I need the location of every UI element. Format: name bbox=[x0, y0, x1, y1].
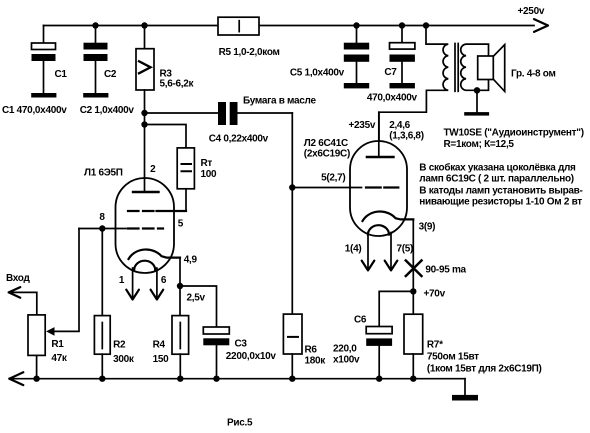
svg-text:R6: R6 bbox=[305, 345, 318, 356]
node +250v arrow bbox=[534, 19, 548, 32]
resistor R5 bbox=[218, 17, 259, 35]
svg-text:TW10SE ("Аудиоинструмент"): TW10SE ("Аудиоинструмент") bbox=[444, 128, 584, 139]
ground (speaker) bbox=[476, 90, 478, 112]
resistor R2 bbox=[101, 229, 103, 316]
svg-text:750ом 15вт: 750ом 15вт bbox=[427, 352, 479, 363]
node input arrow bbox=[9, 287, 21, 298]
svg-text:C7: C7 bbox=[384, 67, 397, 78]
svg-text:Гр. 4-8 ом: Гр. 4-8 ом bbox=[511, 69, 556, 80]
svg-text:В скобках указана цоколёвка дл: В скобках указана цоколёвка для bbox=[419, 162, 576, 174]
svg-text:1: 1 bbox=[119, 275, 125, 286]
tube L2 anode pins 2,4,6 bbox=[378, 112, 380, 157]
svg-text:47к: 47к bbox=[51, 353, 68, 364]
svg-text:(2х6С19С): (2х6С19С) bbox=[304, 149, 350, 160]
svg-text:C1 470,0x400v: C1 470,0x400v bbox=[2, 105, 67, 116]
capacitor C3 bbox=[180, 286, 217, 327]
wire C4 to grid node bbox=[291, 113, 293, 188]
ground (bottom right) bbox=[464, 379, 466, 395]
svg-text:R5 1,0-2,0ком: R5 1,0-2,0ком bbox=[219, 47, 280, 58]
svg-text:х100v: х100v bbox=[333, 355, 360, 366]
svg-text:(1,3,6,8): (1,3,6,8) bbox=[389, 131, 424, 142]
wire grid8 to R1 wiper bbox=[55, 229, 80, 332]
transformer T1 core bbox=[455, 44, 458, 92]
svg-text:2,4,6: 2,4,6 bbox=[389, 120, 410, 131]
svg-text:Rт: Rт bbox=[201, 158, 213, 169]
svg-text:2: 2 bbox=[150, 164, 156, 175]
capacitor C5 bbox=[353, 22, 359, 28]
node cathode L1 junction 2,5v bbox=[177, 283, 183, 289]
svg-text:3(9): 3(9) bbox=[419, 222, 436, 233]
svg-text:нивающие резисторы 1-10 Ом 2 в: нивающие резисторы 1-10 Ом 2 вт bbox=[419, 197, 582, 208]
speaker Gr 4-8 om bbox=[493, 45, 504, 92]
tube L1 control grid pin 8 bbox=[128, 227, 163, 229]
svg-text:6: 6 bbox=[161, 275, 167, 286]
transformer T1 secondary bbox=[461, 44, 489, 90]
tube L2 heater bbox=[368, 225, 389, 234]
svg-text:300к: 300к bbox=[113, 354, 135, 365]
svg-text:5(2,7): 5(2,7) bbox=[321, 173, 345, 184]
svg-text:R1: R1 bbox=[51, 339, 64, 350]
wire grid node to R6 bbox=[291, 188, 293, 315]
svg-text:C1: C1 bbox=[55, 69, 68, 80]
tube L1 cathode pins 4,9 bbox=[129, 250, 181, 259]
svg-text:5: 5 bbox=[178, 219, 184, 230]
svg-text:C4 0,22x400v: C4 0,22x400v bbox=[209, 134, 269, 145]
svg-text:(1ком 15вт для 2х6С19П): (1ком 15вт для 2х6С19П) bbox=[427, 364, 542, 375]
svg-text:Рис.5: Рис.5 bbox=[227, 418, 253, 429]
node grid8 junction bbox=[99, 225, 105, 231]
resistor R6 bbox=[283, 314, 302, 354]
resistor R7* bbox=[404, 314, 423, 354]
svg-text:Бумага в масле: Бумага в масле bbox=[243, 96, 316, 107]
svg-text:C5 1,0x400v: C5 1,0x400v bbox=[290, 68, 345, 79]
svg-text:+70v: +70v bbox=[424, 289, 446, 300]
svg-text:5,6-6,2к: 5,6-6,2к bbox=[160, 79, 195, 90]
resistor R3 bbox=[141, 22, 147, 28]
svg-text:Вход: Вход bbox=[6, 273, 30, 284]
tube L1 envelope bbox=[116, 178, 175, 273]
svg-text:+250v: +250v bbox=[518, 6, 545, 17]
svg-text:220,0: 220,0 bbox=[333, 344, 357, 355]
svg-text:C2 1,0x400v: C2 1,0x400v bbox=[80, 105, 135, 116]
svg-text:+235v: +235v bbox=[349, 120, 376, 131]
svg-text:100: 100 bbox=[201, 169, 218, 180]
node input rail arrow bbox=[9, 372, 23, 385]
potentiometer R1 bbox=[9, 292, 37, 315]
svg-text:Л1 6Э5П: Л1 6Э5П bbox=[84, 168, 123, 179]
svg-text:180к: 180к bbox=[305, 356, 327, 367]
tube L1 anode plate pin 2 bbox=[133, 191, 159, 193]
ground (C7) bbox=[390, 83, 415, 88]
svg-text:2200,0x10v: 2200,0x10v bbox=[226, 351, 277, 362]
svg-text:R2: R2 bbox=[113, 340, 126, 351]
svg-text:470,0x400v: 470,0x400v bbox=[367, 93, 418, 104]
node rail junction dots bbox=[33, 376, 39, 382]
svg-text:8: 8 bbox=[99, 212, 105, 223]
node grid L2 junction bbox=[289, 184, 295, 190]
ground (C1) bbox=[31, 93, 56, 98]
wire +250v top rail bbox=[44, 25, 535, 27]
tube L2 grid pin 5(2,7) bbox=[292, 187, 361, 189]
capacitor C6 bbox=[379, 291, 413, 326]
node +70v bbox=[410, 288, 416, 294]
svg-text:Л2 6С41С: Л2 6С41С bbox=[304, 138, 348, 149]
svg-text:R7*: R7* bbox=[427, 340, 443, 351]
tube L1 screen grid pin 5 bbox=[128, 210, 154, 212]
ground (C5) bbox=[344, 83, 369, 88]
svg-text:7(5): 7(5) bbox=[397, 244, 414, 255]
svg-text:C2: C2 bbox=[104, 69, 117, 80]
capacitor C1 bbox=[43, 26, 45, 44]
resistor R4 bbox=[172, 316, 189, 355]
capacitor C4 bbox=[145, 112, 219, 114]
svg-text:R=1ком; К=12,5: R=1ком; К=12,5 bbox=[444, 139, 515, 150]
ground (C2) bbox=[83, 93, 108, 98]
svg-text:2,5v: 2,5v bbox=[187, 293, 206, 304]
node anode-Rt junction bbox=[141, 121, 147, 127]
node speaker ground junction bbox=[474, 87, 480, 93]
svg-text:150: 150 bbox=[153, 354, 170, 365]
wire bottom ground rail bbox=[9, 378, 465, 380]
tube L1 heater bbox=[134, 261, 155, 270]
tube L2 cathode pin 3(9) bbox=[363, 212, 414, 221]
wire R3 bottom to anode node bbox=[144, 90, 146, 192]
tube L2 6S41S envelope bbox=[350, 141, 407, 236]
svg-text:В катоды ламп установить вырав: В катоды ламп установить вырав- bbox=[419, 186, 582, 197]
svg-text:ламп 6С19С ( 2 шт. параллельно: ламп 6С19С ( 2 шт. параллельно) bbox=[419, 174, 573, 185]
node X current test 90-95ma bbox=[406, 261, 422, 277]
svg-text:C6: C6 bbox=[354, 315, 367, 326]
svg-text:1(4): 1(4) bbox=[345, 244, 362, 255]
svg-text:4,9: 4,9 bbox=[184, 255, 198, 266]
transformer T1 primary bbox=[423, 22, 429, 28]
capacitor C7 bbox=[399, 22, 405, 28]
svg-text:R4: R4 bbox=[153, 340, 166, 351]
node anode-C4 junction bbox=[141, 110, 147, 116]
resistor Rt 100 bbox=[145, 125, 187, 148]
svg-text:C3: C3 bbox=[235, 339, 248, 350]
capacitor C2 bbox=[92, 22, 98, 28]
svg-text:90-95 ma: 90-95 ma bbox=[425, 265, 466, 276]
